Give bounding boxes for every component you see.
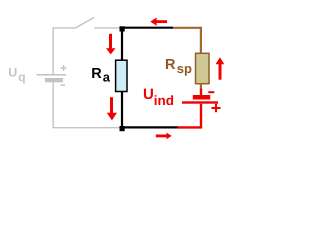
svg-text:R: R: [91, 66, 102, 82]
svg-text:ind: ind: [154, 93, 174, 108]
battery Uq plus sign: [61, 65, 67, 71]
svg-text:sp: sp: [177, 61, 192, 76]
wire Rsp to Uind source (red): [200, 89, 202, 96]
current arrow up (right of Rsp): [216, 57, 225, 79]
battery Uq minus sign: [60, 84, 65, 86]
wire top junction down to Ra: [121, 28, 123, 61]
wire battery positive to switch (gray L): [53, 28, 76, 74]
source Uind negative plate (thick bar): [193, 95, 210, 100]
svg-text:R: R: [165, 57, 176, 73]
node: bottom junction: [120, 126, 125, 131]
svg-text:U: U: [143, 86, 154, 103]
wire top (black), junction to Rsp branch: [122, 27, 173, 29]
battery Uq plates: [37, 74, 67, 82]
resistor Ra: [116, 60, 127, 91]
svg-text:U: U: [8, 66, 17, 80]
source Uind positive plate (thin bar): [182, 101, 218, 103]
svg-text:a: a: [103, 69, 111, 84]
current arrow left (top wire): [150, 18, 167, 26]
wire battery negative to bottom junction (gray L): [53, 82, 120, 127]
current arrow right (bottom wire): [156, 133, 172, 140]
switch S1 blade (open): [76, 17, 94, 28]
resistor Rsp: [196, 53, 210, 83]
current arrow down (above Ra): [106, 34, 116, 55]
node: top junction: [120, 26, 125, 31]
svg-text:q: q: [18, 70, 25, 84]
source Uind minus sign: [208, 91, 214, 93]
wire Rsp bottom stub (brown): [200, 84, 202, 89]
source Uind plus sign: [212, 104, 221, 112]
wire switch to top junction (gray): [94, 27, 120, 29]
wire Ra bottom to bottom junction: [121, 92, 123, 129]
wire top right (brown) to Rsp: [173, 28, 201, 54]
wire bottom (black), junction to red segment: [122, 126, 178, 128]
wire Uind to bottom right corner (red L): [178, 104, 201, 128]
current arrow down (below Ra): [107, 97, 117, 120]
